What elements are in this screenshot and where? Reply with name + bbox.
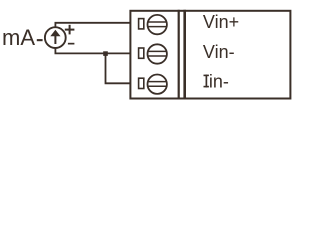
svg-text:Vin+: Vin+: [203, 12, 239, 32]
terminal screw Vin+: [139, 15, 167, 34]
label mA: [2, 25, 43, 50]
svg-text:Iin-: Iin-: [204, 71, 229, 91]
svg-text:Vin-: Vin-: [203, 42, 235, 62]
svg-text:mA: mA: [2, 25, 35, 50]
pin label Iin-: [204, 71, 229, 91]
wire source+ to Vin+: [55, 23, 130, 27]
wire source- to Vin-: [55, 48, 130, 53]
current source CS1: [45, 27, 66, 48]
terminal screw Vin-: [139, 44, 167, 63]
polarity mark +: [65, 25, 75, 35]
terminal screw Iin-: [139, 75, 167, 94]
junction node: [103, 51, 108, 56]
separator double line: [178, 10, 186, 100]
pin label Vin+: [203, 12, 239, 32]
terminal block body: [130, 11, 290, 99]
wire junction to Iin-: [106, 53, 131, 83]
polarity mark -: [68, 43, 75, 45]
pin label Vin-: [203, 42, 235, 62]
